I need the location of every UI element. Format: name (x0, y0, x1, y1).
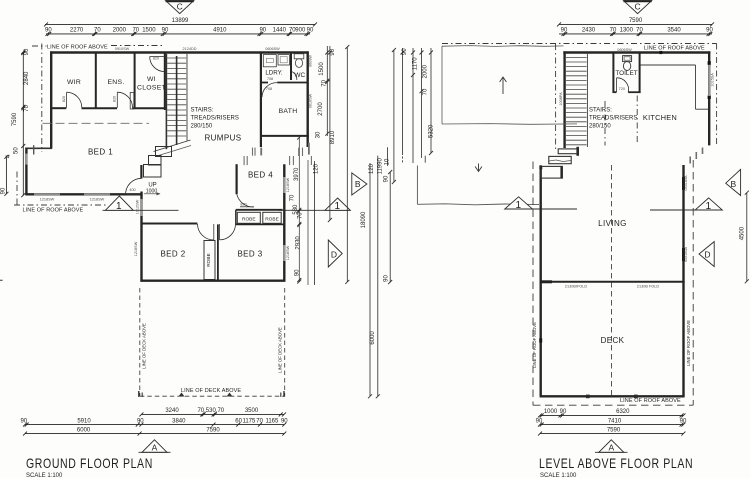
svg-text:1: 1 (116, 201, 122, 212)
svg-text:708: 708 (266, 87, 272, 91)
wall: ROBE row bottom (236, 223, 285, 225)
section marker 1 right plan right (650, 198, 722, 210)
break line: left vertical (441, 46, 443, 124)
svg-text:400: 400 (129, 188, 135, 192)
windows LIVING right wall (682, 177, 685, 190)
deck dash corner ticks (138, 391, 140, 397)
svg-text:RUMPUS: RUMPUS (204, 134, 241, 143)
svg-text:2270: 2270 (70, 28, 84, 34)
wall: BATH bottom (261, 135, 309, 137)
roof dash right plan top (442, 43, 717, 45)
wall: LIVING right exterior (682, 165, 684, 282)
svg-text:WC: WC (294, 72, 305, 79)
splay stubs right plan (702, 148, 704, 155)
svg-text:90: 90 (706, 28, 713, 34)
window: BED2 left wall 1012SW (140, 199, 142, 216)
svg-text:ROBE: ROBE (265, 217, 279, 223)
roof dash: left plan top (32, 45, 47, 47)
svg-text:LINE OF ROOF ABOVE: LINE OF ROOF ABOVE (23, 208, 84, 214)
svg-text:ROBE: ROBE (242, 217, 256, 223)
roof dash right lower (692, 160, 694, 405)
wall: ROBE row top (BED4 bottom) (236, 209, 283, 211)
svg-text:1218SW: 1218SW (40, 198, 55, 202)
dim bottom rowA right plan (538, 413, 685, 417)
dim left chain ticks 2840/70 (21, 51, 25, 148)
deck dash: bottom horizontal (140, 395, 285, 397)
svg-text:6320: 6320 (616, 409, 630, 415)
roof dash: bottom horizontal (14, 204, 108, 206)
svg-text:90: 90 (383, 275, 389, 282)
svg-text:90: 90 (295, 269, 301, 276)
fixture: tub LDRY (278, 55, 289, 65)
svg-text:8910: 8910 (330, 130, 336, 144)
svg-text:1170: 1170 (412, 57, 418, 71)
window: right wall 1218SW lower (283, 245, 285, 261)
svg-text:1175: 1175 (242, 418, 256, 424)
svg-text:4910: 4910 (213, 28, 227, 34)
title GROUND FLOOR PLAN (26, 456, 153, 472)
marker C left plan (166, 1, 194, 14)
svg-text:70,530,70: 70,530,70 (197, 408, 224, 414)
bifold end stack (540, 280, 552, 283)
svg-text:90: 90 (137, 418, 144, 424)
svg-text:90: 90 (383, 175, 389, 182)
marker B right plan (726, 169, 741, 195)
svg-text:BATH: BATH (279, 108, 298, 115)
window: BED 1 left wall (25, 154, 27, 165)
centre fold dash (611, 165, 613, 396)
wall: BED4 left (236, 164, 238, 194)
svg-text:2930: 2930 (296, 236, 302, 250)
stairs centre stringer (176, 56, 178, 145)
stair direction arrow down (478, 164, 480, 171)
break line: lower-left vertical (416, 166, 418, 205)
svg-text:70: 70 (256, 418, 263, 424)
svg-text:3840: 3840 (172, 418, 186, 424)
marker C right plan (624, 1, 652, 14)
marker D (left plan side) (328, 240, 342, 267)
door WIR arc (67, 92, 82, 107)
wall: WI CLOSET right (164, 53, 166, 111)
svg-text:7590: 7590 (206, 427, 220, 433)
wall: BED2/BED3 bottom exterior (140, 280, 285, 282)
svg-text:STAIRS:: STAIRS: (191, 108, 214, 114)
svg-text:045185A: 045185A (684, 175, 688, 191)
stairs break line (154, 140, 191, 152)
dim top row total 7590 right plan (557, 22, 714, 26)
wall: BED2 left exterior (140, 192, 142, 282)
roof dash right plan right upper (716, 44, 718, 145)
stairs winder steps (156, 147, 172, 157)
svg-text:1000: 1000 (544, 409, 558, 415)
svg-text:TREADS/RISERS: TREADS/RISERS (589, 116, 637, 122)
svg-text:0616SW: 0616SW (309, 93, 313, 108)
roof dash: lower-left vertical (16, 172, 18, 206)
wall: top rooms bottom (with door gaps) (51, 107, 66, 109)
splay stubs below BATH (left) (252, 148, 254, 156)
svg-text:LINE OF ROOF ABOVE: LINE OF ROOF ABOVE (532, 322, 537, 368)
svg-text:2000: 2000 (422, 64, 428, 78)
svg-text:1: 1 (516, 200, 522, 211)
door ENS arc (117, 92, 132, 107)
svg-text:70: 70 (321, 79, 327, 86)
svg-text:70: 70 (610, 28, 617, 34)
wall: right plan right exterior upper (708, 51, 710, 145)
entry door arc (126, 178, 142, 194)
dim left chain 7590 (21, 50, 25, 197)
svg-text:2000: 2000 (113, 28, 127, 34)
svg-text:10: 10 (384, 158, 390, 165)
svg-text:6000: 6000 (77, 427, 91, 433)
svg-text:1008PA: 1008PA (559, 92, 563, 106)
svg-text:LDRY.: LDRY. (265, 70, 283, 77)
stairs right plan right rail (586, 54, 588, 147)
svg-text:3500: 3500 (245, 408, 259, 414)
section marker 1 right plan left (505, 197, 577, 209)
svg-text:1300: 1300 (620, 28, 634, 34)
deck dash: right vertical (284, 288, 286, 396)
wall: WIR-ENS divider (95, 53, 97, 109)
svg-text:70: 70 (94, 28, 101, 34)
svg-text:BED 3: BED 3 (237, 249, 262, 258)
dim bottom rowC left plan (23, 432, 286, 436)
marker A left plan (139, 440, 171, 453)
svg-text:STAIRS:: STAIRS: (589, 108, 612, 114)
svg-text:C: C (177, 2, 183, 12)
wall: building right exterior (upper) (307, 51, 309, 147)
svg-text:B: B (730, 179, 736, 189)
dim top row total 13899 (44, 22, 317, 26)
top wall jamb blob (660, 51, 663, 54)
svg-text:BED 1: BED 1 (88, 148, 113, 157)
svg-text:ROBE: ROBE (206, 253, 212, 267)
svg-text:C: C (635, 2, 641, 12)
svg-text:CLOSET: CLOSET (137, 85, 166, 92)
marker D right plan (699, 242, 714, 267)
robe boxes horizontal (237, 212, 260, 223)
dim bottom rowA left plan (139, 412, 286, 416)
svg-text:2130BIFOLD: 2130BIFOLD (565, 285, 587, 289)
svg-text:TOILET: TOILET (615, 70, 637, 77)
svg-text:1500: 1500 (319, 62, 325, 76)
svg-text:280/150: 280/150 (589, 124, 611, 130)
svg-text:WIR: WIR (67, 79, 81, 86)
svg-text:1218SW: 1218SW (286, 177, 290, 192)
svg-text:7590: 7590 (629, 18, 643, 24)
doors BED2/BED3 double arcs (198, 224, 214, 240)
svg-text:1440: 1440 (273, 28, 287, 34)
svg-text:045185A: 045185A (684, 246, 688, 262)
svg-text:2130B FOLD: 2130B FOLD (637, 285, 659, 289)
dash below toilet wall (636, 96, 638, 146)
stair direction arrow up (502, 78, 504, 94)
svg-text:70: 70 (24, 104, 30, 111)
svg-text:90: 90 (24, 48, 30, 55)
svg-text:1012SW: 1012SW (136, 199, 140, 214)
dim bottom rowB right plan (538, 423, 685, 427)
wall: BED 1 lower-left exterior (25, 148, 27, 196)
kitchen bench lines (640, 64, 695, 66)
svg-text:LINE OF DECK ABOVE: LINE OF DECK ABOVE (142, 323, 147, 369)
svg-text:0606SW: 0606SW (617, 48, 632, 52)
svg-text:18090: 18090 (361, 211, 367, 228)
wall: left jog at BED 1 (25, 147, 52, 149)
dim 4500 chain right (745, 191, 749, 284)
window: right wall 1218SW upper (283, 177, 285, 193)
svg-text:7410: 7410 (608, 418, 622, 424)
dim top row 2 right plan (559, 32, 712, 36)
roof dash: left plan left vertical (41, 44, 43, 153)
stairs left plan rails (165, 54, 167, 149)
wall: DECK right exterior (682, 282, 684, 397)
svg-text:A: A (152, 443, 158, 453)
svg-text:LIVING: LIVING (598, 219, 627, 228)
wall: left plan top exterior (50, 51, 309, 53)
svg-text:70: 70 (297, 212, 303, 219)
section marker 1 (left plan, right) (279, 198, 351, 210)
svg-text:0609W: 0609W (309, 55, 313, 67)
wall: BED3/BED4 right exterior (283, 164, 285, 281)
fixture: washing machine LDRY (263, 55, 276, 67)
interior long dash at BED1 (43, 122, 150, 124)
svg-text:1218SW: 1218SW (286, 245, 290, 260)
svg-text:820: 820 (153, 57, 159, 61)
svg-text:0910SW: 0910SW (115, 47, 130, 51)
svg-text:KITCHEN: KITCHEN (643, 113, 677, 122)
svg-text:1015SA: 1015SA (711, 73, 715, 87)
svg-text:WI: WI (147, 76, 156, 83)
door LDRY-BATH arc (262, 83, 277, 98)
svg-text:90: 90 (162, 28, 169, 34)
svg-text:0606SW: 0606SW (265, 47, 280, 51)
svg-text:90: 90 (20, 418, 27, 424)
wall: LIVING/DECK left exterior (540, 165, 542, 396)
svg-text:LEVEL ABOVE FLOOR PLAN: LEVEL ABOVE FLOOR PLAN (539, 456, 693, 472)
svg-text:820: 820 (113, 96, 117, 102)
svg-text:30: 30 (316, 131, 322, 138)
svg-text:LINE OF ROOF ABOVE: LINE OF ROOF ABOVE (620, 398, 681, 404)
roof dash left of stairs (555, 44, 557, 149)
svg-text:90: 90 (0, 187, 6, 194)
dim top row 2 left plan (46, 32, 311, 36)
svg-text:50: 50 (14, 147, 20, 154)
svg-text:SCALE 1:100: SCALE 1:100 (26, 473, 63, 478)
door ENS leaf (116, 92, 118, 108)
svg-text:820: 820 (240, 203, 246, 207)
roof dash bottom (533, 404, 693, 406)
svg-text:1: 1 (335, 201, 341, 212)
svg-text:SCALE 1:100: SCALE 1:100 (540, 473, 577, 478)
deck bottom post (586, 395, 590, 399)
splay stubs below BATH (right) (289, 156, 291, 165)
break line: lower wavy (417, 204, 539, 205)
svg-text:13899: 13899 (172, 18, 189, 24)
svg-text:70: 70 (290, 194, 296, 201)
svg-text:2430: 2430 (582, 28, 596, 34)
wall: right plan left exterior (stair wall) (563, 51, 565, 148)
marker A right plan (595, 440, 628, 453)
deck dash: left vertical (139, 288, 141, 396)
door WI CLOSET arc (150, 57, 165, 72)
svg-text:120: 120 (369, 163, 375, 174)
stairs right plan treads (566, 57, 587, 144)
svg-text:1218SW: 1218SW (134, 241, 138, 256)
svg-text:LINE OF ROOF ABOVE: LINE OF ROOF ABOVE (686, 320, 691, 366)
section marker 1 (left plan, left) (103, 196, 179, 210)
svg-text:ENS.: ENS. (107, 79, 124, 86)
svg-text:D: D (331, 249, 337, 259)
wall: BED2 top (141, 223, 197, 225)
dim bottom rowB left plan (23, 423, 286, 427)
svg-text:2700: 2700 (318, 102, 324, 116)
svg-text:11990: 11990 (377, 158, 383, 175)
door WI CLOSET leaf (150, 56, 165, 58)
wall: right plan top exterior (563, 51, 710, 53)
svg-text:820: 820 (62, 96, 66, 102)
svg-text:90: 90 (45, 28, 52, 34)
svg-text:280/150: 280/150 (191, 124, 213, 130)
svg-text:90: 90 (330, 48, 336, 55)
svg-text:2124DD: 2124DD (183, 47, 197, 51)
svg-text:GROUND FLOOR PLAN: GROUND FLOOR PLAN (26, 456, 153, 472)
svg-text:6000: 6000 (370, 331, 376, 345)
svg-text:120: 120 (314, 163, 320, 174)
svg-text:5910: 5910 (77, 418, 91, 424)
window blob deck left wall (539, 338, 542, 342)
svg-text:3240: 3240 (165, 408, 179, 414)
svg-text:90: 90 (281, 418, 288, 424)
marker B (left plan side) (352, 173, 367, 195)
roof dash left lower (532, 162, 534, 406)
dim chain 3970/530/2930 right of lower wing (297, 136, 308, 286)
wall: TOILET bottom (613, 91, 616, 93)
svg-text:70: 70 (422, 88, 428, 95)
svg-text:1: 1 (706, 201, 712, 212)
gap chains between plans (315, 45, 396, 398)
title LEVEL ABOVE FLOOR PLAN (539, 456, 693, 472)
dim bottom rowC right plan (538, 432, 685, 436)
svg-text:90: 90 (536, 418, 543, 424)
wall: LDRY-WC divider (290, 53, 292, 81)
wall: left plan upper-left exterior (50, 51, 52, 148)
roof dash kitchen hall (604, 101, 606, 146)
door TOILET leaf + arc (616, 78, 618, 92)
wall: TOILET right (639, 53, 641, 94)
svg-text:BED 4: BED 4 (248, 171, 273, 180)
svg-text:90: 90 (259, 28, 266, 34)
svg-text:720: 720 (619, 87, 625, 91)
wall: bifold line LIVING/DECK (540, 281, 685, 283)
svg-text:5320: 5320 (428, 124, 434, 138)
svg-text:BED 2: BED 2 (160, 249, 185, 258)
left chains right plan (401, 48, 434, 163)
svg-text:7590: 7590 (607, 427, 621, 433)
wall: LDRY/BATH left (260, 53, 262, 148)
svg-text:90: 90 (307, 28, 314, 34)
wall: ENS-WI CLOSET divider (134, 53, 136, 109)
svg-text:70: 70 (132, 28, 139, 34)
door BED4 arc (237, 194, 254, 207)
stairs left plan treads (167, 58, 186, 136)
break line: top wavy (442, 45, 564, 48)
svg-text:7590: 7590 (12, 112, 18, 126)
window dark blob right wall (708, 96, 711, 100)
wall: BED 1 bottom exterior (25, 193, 142, 195)
wall: TOILET left (612, 53, 614, 94)
door WC arc (291, 71, 297, 80)
svg-text:D: D (704, 250, 710, 260)
svg-text:900: 900 (295, 28, 306, 34)
svg-text:TREADS/RISERS: TREADS/RISERS (191, 116, 239, 122)
wall: LDRY bottom (261, 82, 268, 84)
break line: mid horizontal (442, 123, 577, 126)
svg-text:90: 90 (680, 418, 687, 424)
svg-text:90: 90 (561, 28, 568, 34)
svg-text:LINE OF ROOF ABOVE: LINE OF ROOF ABOVE (644, 46, 705, 52)
fixture: ENS shower (130, 93, 134, 110)
svg-text:3970: 3970 (294, 167, 300, 181)
svg-text:2840: 2840 (24, 71, 30, 85)
svg-text:90: 90 (560, 409, 567, 415)
dim far-left 90 chain (4, 155, 8, 196)
fixture: toilet (right plan) (623, 56, 632, 62)
svg-text:LINE OF ROOF ABOVE: LINE OF ROOF ABOVE (47, 45, 108, 51)
stairs landing steps right plan (558, 149, 577, 154)
svg-text:90: 90 (402, 48, 408, 55)
wall: divider right of tall robe (217, 224, 219, 280)
svg-text:70: 70 (636, 28, 643, 34)
svg-text:DECK: DECK (601, 336, 625, 345)
svg-text:708: 708 (267, 77, 273, 81)
entry door jamb (140, 165, 142, 179)
svg-text:1500: 1500 (142, 28, 156, 34)
svg-text:LINE OF DECK ABOVE: LINE OF DECK ABOVE (278, 327, 283, 373)
window: BED 1 bottom 1218SW left (34, 193, 60, 195)
fixture: WC toilet (294, 54, 304, 59)
window: BED 1 bottom 1218SW right (84, 193, 110, 195)
left margin tick (0, 279, 3, 281)
svg-text:LINE OF DECK ABOVE: LINE OF DECK ABOVE (181, 388, 241, 394)
robe tall box (204, 241, 215, 280)
wall: DECK bottom exterior (540, 395, 685, 397)
svg-text:A: A (608, 443, 614, 453)
svg-text:B: B (355, 179, 361, 189)
wall: jog stub (33, 145, 35, 154)
svg-text:3540: 3540 (667, 28, 681, 34)
svg-text:1165: 1165 (265, 418, 279, 424)
svg-text:4500: 4500 (740, 226, 746, 240)
door WIR leaf (66, 92, 68, 108)
svg-text:1218SW: 1218SW (90, 198, 105, 202)
kitchen window right wall (708, 65, 710, 97)
